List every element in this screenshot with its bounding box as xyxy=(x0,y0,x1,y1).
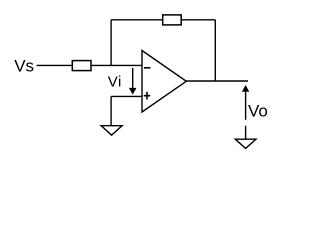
svg-text:Vs: Vs xyxy=(14,56,34,75)
wire from Vs to inverting input xyxy=(37,64,143,66)
wire feedback left vertical xyxy=(110,20,112,66)
op-amp U1 body xyxy=(142,51,186,113)
Vi measurement arrow (downward) xyxy=(129,68,136,94)
wire ground lead right xyxy=(245,126,247,140)
ground (right) xyxy=(235,139,256,148)
wire ground lead left xyxy=(110,96,112,125)
wire output xyxy=(186,80,248,82)
wire non-inverting input horizontal xyxy=(111,95,142,97)
wire feedback top horizontal xyxy=(111,19,215,21)
wire feedback right vertical xyxy=(214,20,216,81)
svg-text:Vi: Vi xyxy=(108,74,122,91)
op-amp non-inverting input pin mark + xyxy=(144,92,151,100)
resistor R1 (input resistor) xyxy=(72,61,91,71)
resistor R2 (feedback resistor) xyxy=(163,15,182,25)
svg-text:Vo: Vo xyxy=(248,101,268,120)
Vo measurement arrow (upward) xyxy=(242,86,248,120)
op-amp inverting input pin mark - xyxy=(144,67,150,69)
ground (left) xyxy=(101,126,122,136)
